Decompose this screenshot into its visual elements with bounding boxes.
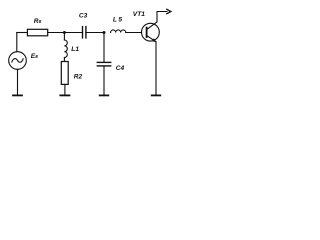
svg-text:L1: L1: [71, 46, 79, 53]
svg-text:C4: C4: [116, 65, 125, 72]
svg-text:Rг: Rг: [34, 18, 42, 25]
svg-text:C3: C3: [79, 13, 88, 20]
svg-text:L5: L5: [113, 16, 124, 23]
svg-text:R2: R2: [74, 74, 83, 81]
svg-text:Eг: Eг: [31, 53, 38, 60]
svg-text:VT1: VT1: [133, 11, 145, 18]
